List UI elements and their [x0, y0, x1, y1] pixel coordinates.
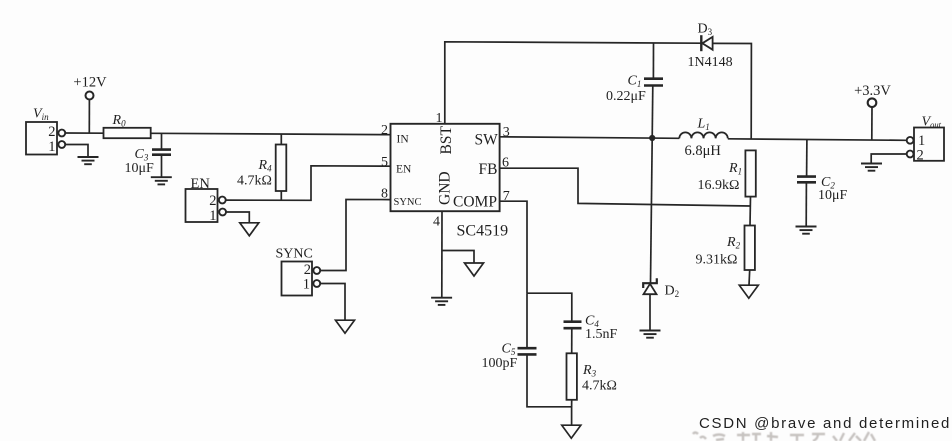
svg-text:R0: R0	[112, 113, 127, 129]
svg-text:R2: R2	[726, 235, 741, 251]
svg-text:SC4519: SC4519	[457, 223, 509, 240]
capacitor C4 plates	[564, 322, 582, 329]
svg-text:10μF: 10μF	[818, 188, 848, 203]
ground (triangle) at R2	[739, 285, 758, 298]
svg-text:8: 8	[381, 186, 388, 201]
connector J1 Vin box	[26, 122, 57, 155]
svg-text:16.9kΩ: 16.9kΩ	[698, 178, 740, 193]
svg-text:1: 1	[303, 277, 310, 293]
connector J2 pin 1 circle	[219, 209, 226, 216]
svg-text:1N4148: 1N4148	[688, 55, 733, 70]
ground (triangle) at SYNC pin1	[336, 320, 355, 333]
ground (hatched) at Vout pin2	[861, 164, 882, 171]
connector J2 EN box	[186, 189, 218, 222]
wire Vin pin2 to R0	[65, 132, 103, 134]
wire BST pin up and top rail	[445, 42, 701, 124]
wire GND branch to triangle	[442, 251, 474, 264]
inductor L1	[679, 132, 727, 138]
svg-text:R1: R1	[728, 161, 742, 177]
svg-text:SYNC: SYNC	[394, 197, 422, 208]
svg-text:+12V: +12V	[73, 75, 107, 91]
wire R1 to R2	[749, 197, 752, 226]
wire D3 to right vertical	[713, 43, 752, 139]
svg-text:Vin: Vin	[33, 107, 49, 123]
svg-text:COMP: COMP	[453, 193, 497, 210]
zener D2 triangle	[644, 284, 657, 294]
wire FB pin to divider	[500, 168, 751, 206]
capacitor C1 plates	[644, 79, 663, 86]
ground (triangle) at compensation network	[562, 425, 581, 438]
resistor R0 body	[104, 128, 151, 138]
connector J3 pin 2 circle	[313, 267, 320, 274]
wire +3.3V to output line	[871, 107, 873, 140]
wire C4 to R3	[571, 328, 573, 353]
wire C1 top lead	[652, 43, 654, 78]
svg-text:10μF: 10μF	[125, 161, 155, 176]
svg-text:EN: EN	[396, 164, 412, 176]
resistor R4 body	[276, 145, 287, 192]
capacitor C2 plates	[797, 177, 816, 183]
ground (hatched) at D2	[640, 331, 661, 338]
zener D2 cathode bar with hooks	[643, 278, 657, 288]
svg-text:1: 1	[48, 139, 55, 155]
wire SYNC pin2 to IC SYNC pin	[320, 200, 390, 271]
zener diode D2 line from SW node	[651, 138, 653, 283]
wire U1 GND pin down	[441, 211, 443, 297]
wire R4 top lead	[280, 134, 282, 144]
wire COMP pin to compensation network	[500, 201, 527, 293]
svg-text:EN: EN	[191, 176, 211, 192]
wire C3 lead top	[161, 133, 163, 149]
svg-text:1: 1	[209, 208, 216, 224]
svg-text:4: 4	[433, 214, 440, 229]
op-amp U1 SC4519 box	[391, 124, 500, 211]
svg-text:1.5nF: 1.5nF	[585, 327, 618, 342]
svg-text:4.7kΩ: 4.7kΩ	[582, 378, 617, 393]
svg-text:L1: L1	[697, 116, 710, 132]
ground (hatched) at C2	[796, 227, 817, 234]
ground (hatched) at C3	[151, 177, 172, 184]
svg-text:3: 3	[503, 125, 510, 140]
wire Vin pin1 to ground	[65, 145, 88, 157]
svg-text:6.8μH: 6.8μH	[685, 143, 722, 159]
capacitor C3 plates	[152, 150, 171, 155]
connector J1 pin 1 circle	[58, 141, 65, 148]
wire C3 lead bottom	[161, 155, 163, 177]
svg-text:C1: C1	[628, 74, 642, 90]
svg-text:C5: C5	[502, 341, 516, 357]
wire C2 bottom lead	[805, 182, 807, 226]
wire C1 bottom lead to SW node	[651, 86, 654, 139]
ground (triangle) at EN pin1	[240, 223, 259, 236]
wire R2 to ground	[748, 270, 751, 285]
connector J4 Vout box	[914, 128, 944, 161]
wire C5 bottom to ground line	[527, 354, 572, 425]
svg-text:2: 2	[209, 193, 216, 209]
connector J2 pin 2 circle	[219, 197, 226, 204]
connector J1 pin 2 circle	[58, 130, 65, 137]
svg-text:SYNC: SYNC	[276, 247, 313, 262]
svg-text:2: 2	[381, 123, 388, 138]
svg-text:0.22μF: 0.22μF	[606, 89, 646, 104]
svg-text:R3: R3	[582, 363, 597, 379]
wire C2 top lead	[806, 140, 808, 177]
wire R4 bottom lead to EN net	[280, 191, 282, 200]
power +12V terminal circle	[86, 92, 94, 100]
capacitor C5 plates	[518, 348, 537, 354]
wire Vout pin2 to ground	[871, 154, 907, 163]
svg-text:D2: D2	[665, 283, 680, 299]
resistor R2 body	[745, 226, 755, 271]
svg-text:+3.3V: +3.3V	[854, 83, 891, 99]
ground (hatched) at U1 GND	[431, 298, 452, 305]
ground (triangle) at U1 GND branch	[465, 263, 484, 276]
connector J3 pin 1 circle	[313, 280, 320, 287]
svg-text:1: 1	[436, 111, 443, 126]
svg-text:2: 2	[48, 124, 55, 140]
watermark chinese fragments	[693, 432, 875, 441]
wire D2 to ground	[649, 294, 651, 330]
svg-text:4.7kΩ: 4.7kΩ	[237, 174, 272, 189]
wire EN pin1 to ground	[226, 212, 249, 223]
connector J4 pin 2 circle	[907, 151, 914, 158]
wire +12V to main line	[88, 100, 90, 134]
node SW junction dot	[649, 135, 655, 141]
connector J4 pin 1 circle	[907, 137, 914, 144]
wire SYNC pin1 to ground	[320, 284, 345, 321]
wire R0 to IC IN pin	[151, 133, 391, 134]
svg-text:100pF: 100pF	[482, 356, 518, 371]
svg-text:IN: IN	[397, 134, 410, 146]
wire COMP branch to C4	[527, 293, 572, 321]
svg-text:GND: GND	[437, 171, 454, 205]
resistor R1 body	[745, 150, 755, 196]
svg-text:Vout: Vout	[922, 115, 942, 130]
ground (hatched) at Vin pin1	[78, 157, 99, 164]
svg-text:5: 5	[381, 155, 388, 170]
svg-text:2: 2	[917, 147, 924, 163]
svg-text:D3: D3	[698, 21, 713, 37]
diode D3 cathode bar	[700, 35, 702, 51]
svg-text:BST: BST	[438, 126, 455, 155]
svg-text:SW: SW	[475, 131, 499, 148]
svg-text:R4: R4	[258, 158, 273, 174]
diode D3 triangle	[702, 37, 712, 50]
wire R3 bottom	[571, 400, 573, 407]
wire L1 to Vout pin1	[728, 139, 906, 141]
svg-text:CSDN @brave and determined: CSDN @brave and determined	[699, 415, 951, 432]
wire EN pin2 to IC EN pin	[226, 166, 391, 201]
svg-text:FB: FB	[479, 161, 498, 178]
power +3.3V terminal circle	[868, 98, 877, 107]
svg-text:9.31kΩ: 9.31kΩ	[696, 253, 738, 268]
resistor R3 body	[567, 353, 577, 400]
wire SW pin to L1	[500, 137, 680, 139]
connector J3 SYNC box	[282, 262, 313, 296]
wire C5 top lead	[526, 293, 528, 348]
